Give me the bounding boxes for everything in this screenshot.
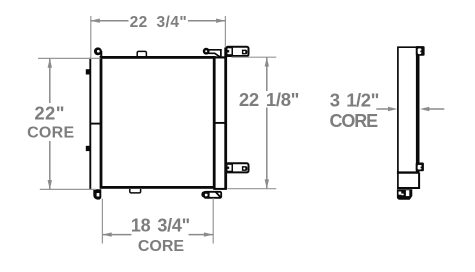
top-right L-bracket [203, 48, 221, 58]
dim 18 3/4 extension right [212, 198, 214, 244]
svg-text:CORE: CORE [329, 111, 378, 131]
core body outline [101, 57, 214, 187]
arrow left of 18 3/4 [102, 232, 111, 236]
side view body outline [398, 47, 419, 188]
left side channel [90, 58, 100, 189]
arrow up of 22 core [48, 58, 52, 67]
top-left mounting lug [94, 47, 102, 58]
side view foot bracket [397, 189, 412, 199]
dim 22 1/8 line upper segment [266, 57, 268, 91]
bottom small tab [130, 189, 141, 193]
side view core band [416, 46, 420, 172]
dim 22 core line lower segment [49, 141, 51, 189]
svg-text:22 1/8": 22 1/8" [239, 89, 299, 110]
side view lower box [397, 173, 419, 188]
svg-text:CORE: CORE [27, 124, 74, 141]
arrow left of 22 3/4 [91, 19, 100, 23]
dim 3 1/2 core right arrow [428, 108, 445, 110]
dim 18 3/4 line left segment [102, 234, 131, 236]
bottom-left foot lug [93, 189, 101, 199]
dim 22 3/4 line right segment [188, 20, 225, 22]
lower-right tube bracket [226, 163, 248, 172]
dim 22 3/4 extension line right [224, 16, 226, 47]
dim 22 core line upper segment [49, 58, 51, 103]
side view lower-right tab [416, 163, 424, 172]
dim 22 1/8 extension bottom [228, 188, 277, 190]
svg-text:18 3/4": 18 3/4" [131, 216, 190, 236]
svg-text:3 1/2": 3 1/2" [330, 89, 379, 110]
bottom-right foot bracket [201, 191, 221, 198]
svg-text:22 3/4": 22 3/4" [130, 14, 188, 31]
dim 22 3/4 line left segment [91, 20, 129, 22]
arrow right of 18 3/4 [204, 232, 213, 236]
dim 22 1/8 extension top [232, 56, 277, 58]
arrow down of 22 1/8 [265, 179, 269, 188]
left channel nub upper [86, 69, 91, 74]
arrow down of 22 core [48, 180, 52, 189]
dim 22 core extension top [38, 57, 101, 59]
svg-text:CORE: CORE [138, 238, 185, 255]
dim 22 1/8 line lower segment [266, 108, 268, 189]
svg-text:22": 22" [34, 103, 65, 124]
left channel nub lower [86, 146, 91, 151]
dim 18 3/4 line right segment [189, 234, 214, 236]
dim 22 3/4 extension line left [90, 16, 92, 58]
side view step line [397, 171, 419, 173]
top small tab [137, 51, 146, 57]
dim 18 3/4 extension left [101, 199, 103, 244]
dim 22 core extension bottom [40, 188, 96, 190]
right side channel [213, 48, 227, 189]
top-right tube bracket [226, 47, 248, 56]
arrow up of 22 1/8 [265, 57, 269, 66]
dim 3 1/2 core left arrow [376, 108, 391, 110]
arrow right of 22 3/4 [216, 19, 225, 23]
side view top-right tab [416, 46, 425, 56]
